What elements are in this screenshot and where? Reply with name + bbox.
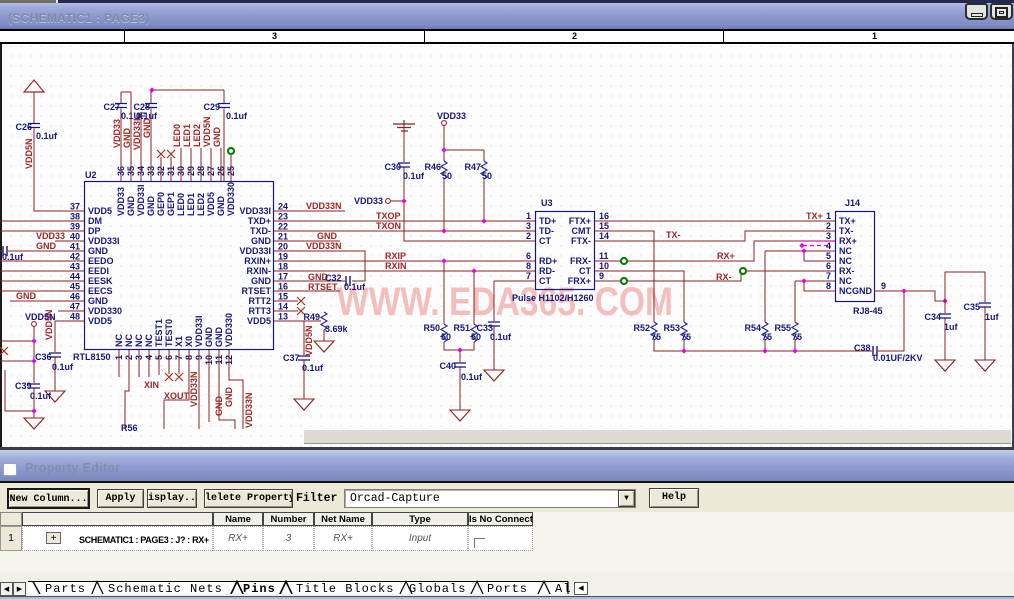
wire RXIP [274, 260, 535, 262]
op-amp U2 RTL8150 body [85, 182, 274, 350]
svg-text:X0: X0 [184, 336, 194, 347]
power port VDD33 circle top [442, 121, 447, 126]
svg-text:0.1uf: 0.1uf [30, 391, 52, 401]
wire RX- U3 to J14 [595, 271, 835, 281]
wire C28 column [150, 90, 152, 181]
ground below C33 [484, 370, 504, 381]
ground below C35 [975, 360, 995, 371]
wire pin38 DM [0, 220, 84, 222]
svg-text:GND: GND [251, 236, 272, 246]
junction pin7 pin8 [801, 278, 806, 283]
capacitor C40 [454, 363, 466, 367]
capacitor C38 [873, 346, 877, 356]
wire R47 to TXOP [483, 179, 485, 221]
wire pin2 to XIN [125, 350, 129, 429]
resistor R50 [441, 324, 447, 342]
svg-text:15: 15 [278, 292, 288, 302]
svg-text:4: 4 [826, 241, 831, 251]
wire RXIN to R51 [473, 271, 475, 324]
svg-text:R47: R47 [464, 162, 481, 172]
svg-text:GND: GND [224, 387, 234, 408]
svg-text:75: 75 [651, 332, 661, 342]
junction [31, 358, 36, 363]
svg-text:VDD33I: VDD33I [194, 315, 204, 347]
svg-text:VDD33: VDD33 [36, 231, 65, 241]
svg-text:J14: J14 [845, 198, 860, 208]
svg-text:TD-: TD- [539, 226, 554, 236]
svg-text:GND: GND [214, 327, 224, 348]
svg-text:R56: R56 [121, 423, 138, 433]
svg-text:C29: C29 [203, 102, 220, 112]
svg-text:VDD33I: VDD33I [239, 206, 271, 216]
svg-text:0.1uf: 0.1uf [344, 282, 366, 292]
wire pin13 to R49 [274, 320, 321, 322]
wire to C35 [945, 272, 985, 360]
wire J14 pin8 [804, 290, 835, 292]
svg-text:C36: C36 [35, 352, 52, 362]
svg-text:13: 13 [278, 312, 288, 322]
no-connect X pin15 [297, 297, 305, 305]
resistor R49 [321, 312, 327, 330]
svg-text:EESK: EESK [88, 276, 113, 286]
svg-text:FTX-: FTX- [571, 236, 591, 246]
wire RX+ U3 to J14 [595, 241, 835, 261]
svg-text:0.1uf: 0.1uf [403, 171, 425, 181]
wire termination rail [654, 340, 872, 351]
svg-text:EEDI: EEDI [88, 266, 109, 276]
junction C40 [457, 347, 462, 352]
wire stub x221 [220, 148, 222, 181]
wire pin35 column [130, 92, 132, 181]
wire pin42 [0, 260, 84, 262]
capacitor C32 [346, 276, 350, 286]
capacitor C28 [145, 104, 157, 108]
svg-text:75: 75 [792, 332, 802, 342]
svg-text:6: 6 [826, 261, 831, 271]
svg-text:43: 43 [70, 262, 80, 272]
capacitor at left edge pin41 [3, 246, 7, 256]
junction RXIN R51 [471, 268, 476, 273]
svg-text:C30: C30 [384, 162, 401, 172]
junction selected [799, 243, 804, 248]
wire stub x201 [200, 148, 202, 181]
svg-text:FRX-: FRX- [570, 256, 591, 266]
schematic page [0, 44, 1014, 447]
ruler band [0, 29, 1014, 44]
junction R47 TXOP [481, 218, 486, 223]
wire CMT to R52 [595, 231, 654, 322]
svg-text:21: 21 [278, 232, 288, 242]
junction GND C38 [901, 288, 906, 293]
svg-text:2: 2 [826, 221, 831, 231]
svg-text:CT: CT [579, 266, 591, 276]
svg-text:LED2: LED2 [192, 124, 202, 147]
wire TXON [274, 230, 535, 232]
svg-text:TX+: TX+ [806, 211, 823, 221]
svg-text:C38: C38 [854, 343, 871, 353]
svg-text:9: 9 [599, 271, 604, 281]
svg-text:VDD33: VDD33 [354, 196, 383, 206]
svg-text:7: 7 [526, 271, 531, 281]
svg-text:NC: NC [839, 286, 852, 296]
svg-text:75: 75 [762, 332, 772, 342]
svg-text:0.1uf: 0.1uf [52, 362, 74, 372]
wire earth to C30 to junction [403, 124, 405, 201]
wire stub x211 [210, 148, 212, 181]
no-connect donut RX- [740, 268, 746, 274]
svg-text:LED0: LED0 [176, 193, 186, 216]
svg-text:VDD5: VDD5 [247, 316, 271, 326]
junction [31, 408, 36, 413]
wire VDD5N arrow stem to pin37 [34, 92, 84, 211]
wire J14 pin4 [765, 251, 835, 261]
wire pin3 stub [138, 350, 140, 377]
minimize button [965, 3, 988, 20]
wire R49 to ground [323, 330, 325, 341]
wire C38 to GND net [878, 291, 904, 351]
toolbar [0, 483, 1014, 512]
wire pin43 [0, 270, 84, 272]
wire pin14 stub [274, 310, 298, 312]
svg-text:NC: NC [134, 334, 144, 347]
svg-text:39: 39 [70, 222, 80, 232]
ground below R49 [314, 341, 334, 352]
svg-text:14: 14 [599, 231, 609, 241]
svg-text:VDD33: VDD33 [437, 111, 466, 121]
wire VDD33 to R46 R47 [444, 125, 484, 161]
svg-text:GEP1: GEP1 [166, 192, 176, 216]
svg-text:EECS: EECS [88, 286, 113, 296]
no-connect X pin31 [167, 150, 175, 158]
junction R46 TXON [441, 228, 446, 233]
wire TX- U3 to J14 [595, 231, 835, 241]
capacitor C26 [28, 124, 40, 128]
svg-text:19: 19 [278, 252, 288, 262]
svg-text:8: 8 [826, 281, 831, 291]
svg-text:GND: GND [122, 128, 132, 149]
capacitor C29 [218, 104, 230, 108]
svg-text:VDD33N: VDD33N [306, 241, 342, 251]
property table [0, 512, 1014, 572]
wire pin1 stub [118, 350, 120, 377]
wire RXIN [274, 270, 535, 272]
Property Editor title bar [0, 450, 1014, 481]
capacitor C33 [488, 322, 500, 326]
svg-text:VDD330: VDD330 [224, 313, 234, 347]
svg-text:C40: C40 [439, 361, 456, 371]
svg-text:GND: GND [146, 196, 156, 217]
junction pin4 pin5 [801, 248, 806, 253]
no-connect X pin7 [175, 373, 183, 381]
svg-text:NC: NC [839, 246, 852, 256]
capacitor C36 [49, 353, 61, 357]
svg-text:GEP0: GEP0 [156, 192, 166, 216]
svg-text:RD-: RD- [539, 266, 555, 276]
svg-text:0.1uf: 0.1uf [302, 363, 324, 373]
svg-text:0.1uf: 0.1uf [461, 372, 483, 382]
wire pin40 VDD33 [55, 240, 84, 242]
svg-text:37: 37 [70, 202, 80, 212]
svg-text:C39: C39 [15, 381, 32, 391]
svg-text:16: 16 [278, 282, 288, 292]
svg-text:VDD5N: VDD5N [304, 325, 314, 356]
svg-text:NC: NC [839, 276, 852, 286]
svg-text:1: 1 [826, 211, 831, 221]
wire pin16 RTSET [274, 290, 340, 292]
svg-text:RTSET: RTSET [308, 282, 338, 292]
svg-text:TD+: TD+ [539, 216, 556, 226]
svg-text:VDD33N: VDD33N [189, 371, 199, 407]
svg-text:LED1: LED1 [186, 193, 196, 216]
wire pin34 stub [140, 112, 142, 181]
svg-text:0.1uf: 0.1uf [490, 332, 512, 342]
svg-text:VDD33: VDD33 [116, 187, 126, 216]
wire TX+ U3 to J14 [595, 220, 835, 222]
wire pin48 to C36 [55, 321, 84, 391]
svg-text:TX-: TX- [666, 230, 681, 240]
wire pin32 stub [160, 157, 162, 181]
wire pin41 GND [0, 250, 84, 252]
wire pin17 GND to C32 [274, 280, 365, 282]
svg-text:48: 48 [70, 312, 80, 322]
wire stub x191 [190, 148, 192, 181]
svg-text:TEST0: TEST0 [164, 319, 174, 347]
capacitor C30 [398, 163, 410, 167]
earth ground symbol [393, 120, 415, 131]
svg-text:C27: C27 [103, 102, 120, 112]
svg-text:R54: R54 [744, 323, 761, 333]
no-connect X pin14 [297, 307, 305, 315]
capacitor C35 [979, 303, 991, 307]
svg-text:CT: CT [539, 236, 551, 246]
restore button [990, 3, 1013, 20]
svg-text:R51: R51 [453, 323, 470, 333]
svg-text:1uf: 1uf [985, 312, 1000, 322]
svg-text:DP: DP [88, 226, 101, 236]
svg-text:R46: R46 [424, 162, 441, 172]
svg-text:3: 3 [826, 231, 831, 241]
wire pin5 stub [158, 350, 160, 375]
svg-text:15: 15 [599, 221, 609, 231]
wire pin21 GND [274, 240, 340, 242]
capacitor C37 [298, 356, 310, 360]
wire pin11 [219, 350, 235, 429]
svg-text:RTT2: RTT2 [249, 296, 272, 306]
svg-text:9: 9 [881, 281, 886, 291]
main window title bar [0, 0, 1014, 29]
svg-text:16: 16 [599, 211, 609, 221]
svg-text:2: 2 [526, 231, 531, 241]
power port VDD5N circle [32, 322, 37, 327]
svg-text:GND: GND [88, 296, 109, 306]
svg-text:17: 17 [278, 272, 288, 282]
capacitor C27 [115, 104, 127, 108]
svg-text:NC: NC [124, 334, 134, 347]
svg-text:VDD5: VDD5 [206, 192, 216, 216]
svg-text:RD+: RD+ [539, 256, 557, 266]
svg-text:1uf: 1uf [944, 322, 959, 332]
svg-text:VDD33I: VDD33I [239, 246, 271, 256]
ground below C34 [935, 360, 955, 371]
wire pin45 [0, 290, 84, 292]
svg-text:0.01UF/2KV: 0.01UF/2KV [873, 353, 923, 363]
svg-text:X1: X1 [174, 336, 184, 347]
svg-text:EEDO: EEDO [88, 256, 114, 266]
svg-text:VDD5N: VDD5N [25, 312, 56, 322]
resistor R46 [441, 161, 447, 179]
wire pin47 [58, 310, 84, 312]
wire pin4 to R54 [764, 251, 766, 322]
wire pin46 GND [10, 300, 84, 302]
junction VDD33 C30 [401, 198, 406, 203]
svg-text:U2: U2 [85, 170, 97, 180]
svg-text:R52: R52 [633, 323, 650, 333]
horizontal scrollbar [304, 429, 1011, 444]
svg-text:75: 75 [681, 332, 691, 342]
svg-text:R49: R49 [303, 312, 320, 322]
svg-text:C37: C37 [283, 353, 300, 363]
no-connect X pin6 [165, 373, 173, 381]
junction rail R54 [762, 348, 767, 353]
wire pin12 [229, 350, 243, 429]
ground VDD5N rail [24, 418, 44, 429]
wire C27 column [120, 92, 122, 181]
wire TXOP [274, 220, 535, 222]
wire R46 to TXON [443, 179, 445, 231]
resistor R47 [481, 161, 487, 179]
svg-text:GND: GND [16, 291, 37, 301]
capacitor C34 [939, 314, 951, 318]
svg-text:RXIP: RXIP [385, 251, 406, 261]
wire pin25 stub [230, 155, 232, 181]
wire pin8 XOUT [164, 350, 189, 429]
svg-text:CMT: CMT [572, 226, 592, 236]
svg-text:TXD-: TXD- [250, 226, 271, 236]
svg-text:NC: NC [144, 334, 154, 347]
junction C34 [942, 298, 947, 303]
svg-text:23: 23 [278, 212, 288, 222]
svg-text:R53: R53 [663, 323, 680, 333]
svg-text:RX+: RX+ [717, 251, 735, 261]
svg-text:U3: U3 [541, 198, 553, 208]
svg-text:GND: GND [251, 276, 272, 286]
svg-text:XOUT: XOUT [164, 391, 190, 401]
svg-text:10: 10 [599, 261, 609, 271]
no-connect donut U3 pin11 [621, 258, 627, 264]
resistor R51 [471, 324, 477, 342]
svg-text:45: 45 [70, 282, 80, 292]
svg-text:1: 1 [526, 211, 531, 221]
resistor R53 [681, 322, 687, 340]
wire top rail left [121, 91, 131, 93]
wire C33 to U3 pin7 [494, 281, 535, 370]
junction rail R53 [681, 348, 686, 353]
svg-text:RJ8-45: RJ8-45 [853, 306, 883, 316]
svg-text:NC: NC [839, 256, 852, 266]
svg-text:LED0: LED0 [172, 124, 182, 147]
wire CT to R53 [595, 271, 684, 322]
wire to C34 [944, 301, 946, 360]
svg-text:C34: C34 [924, 312, 941, 322]
svg-text:TXD+: TXD+ [248, 216, 271, 226]
wire pin15 stub [274, 300, 298, 302]
svg-text:20: 20 [278, 242, 288, 252]
wire pin39 DP [0, 230, 84, 232]
svg-text:FRX+: FRX+ [568, 276, 591, 286]
selected wire RX+ dashed [802, 241, 834, 246]
wire pin4 stub [148, 350, 150, 377]
svg-text:LED1: LED1 [182, 124, 192, 147]
svg-text:VDD5N: VDD5N [202, 116, 212, 147]
wire C29 column [223, 90, 225, 181]
svg-text:FTX+: FTX+ [569, 216, 591, 226]
junction VDD33 R46 [441, 147, 446, 152]
svg-text:42: 42 [70, 252, 80, 262]
svg-text:VDD5: VDD5 [88, 206, 112, 216]
svg-text:GND: GND [216, 196, 226, 217]
svg-text:RXIN: RXIN [385, 261, 407, 271]
svg-text:0.1uf: 0.1uf [226, 111, 248, 121]
wire J14 pin7 [795, 281, 835, 291]
svg-text:WWW. EDA365. COM: WWW. EDA365. COM [337, 280, 673, 324]
svg-text:41: 41 [70, 242, 80, 252]
wire R50 R51 to C40 [444, 342, 474, 410]
junction rail R55 [792, 348, 797, 353]
ground below C40 [450, 410, 470, 421]
svg-text:VDD5: VDD5 [88, 316, 112, 326]
no-connect donut pin25 [228, 148, 234, 154]
junction RXIP R50 [441, 258, 446, 263]
wire pin31 stub [170, 157, 172, 181]
power port VDD33 circle left [386, 199, 391, 204]
svg-text:50: 50 [471, 332, 481, 342]
svg-text:R50: R50 [423, 323, 440, 333]
resistor R54 [762, 322, 768, 340]
svg-text:RXIN+: RXIN+ [244, 256, 271, 266]
resistor R55 [792, 322, 798, 340]
svg-text:11: 11 [599, 251, 609, 261]
wire J14 pin5 [804, 260, 835, 262]
no-connect X pin32 [157, 150, 165, 158]
wire pin9 [198, 350, 200, 429]
svg-text:TXOP: TXOP [376, 211, 401, 221]
svg-text:XIN: XIN [144, 380, 159, 390]
wire pin24 VDD33N [274, 210, 345, 212]
wire RXIP to R50 [443, 261, 445, 324]
svg-text:DM: DM [88, 216, 102, 226]
svg-text:3.69k: 3.69k [325, 324, 349, 334]
bottom tab bar [0, 572, 1014, 596]
svg-text:GND: GND [204, 327, 214, 348]
svg-text:NC: NC [114, 334, 124, 347]
svg-text:RTT3: RTT3 [249, 306, 272, 316]
svg-text:GND: GND [317, 231, 338, 241]
svg-text:GND: GND [852, 286, 873, 296]
svg-text:CT: CT [539, 276, 551, 286]
svg-text:0.1uf: 0.1uf [36, 131, 58, 141]
svg-text:5: 5 [826, 251, 831, 261]
ground below C37 [294, 399, 314, 410]
wire pin7 stub [178, 350, 180, 374]
ground below C36 [45, 391, 65, 402]
wire pin10 [208, 350, 210, 422]
wire top rail right [151, 89, 224, 91]
svg-text:TXON: TXON [376, 221, 401, 231]
svg-text:7: 7 [826, 271, 831, 281]
wire pin6 stub [168, 350, 170, 374]
power VDD5N arrow [24, 80, 44, 92]
svg-text:LED2: LED2 [196, 193, 206, 216]
